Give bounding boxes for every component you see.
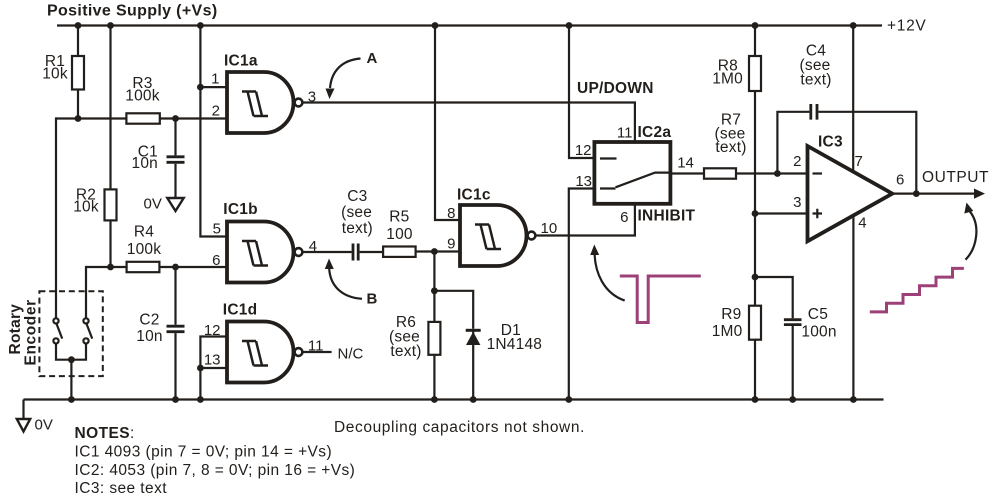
svg-text:B: B [367,291,378,308]
junction C2 top [172,264,179,271]
op-amp minus symbol [813,172,823,174]
junction R6/D1 branch [431,287,438,294]
svg-text:+12V: +12V [887,18,926,35]
svg-text:2: 2 [212,103,220,120]
svg-text:text): text) [342,220,373,237]
capacitor C4 [811,104,817,120]
junction top rail R8 [752,22,759,29]
wire bottom 0V rail [24,398,884,400]
wire IC1b pin4 to C3 [303,251,352,253]
wire top supply rail [57,24,882,26]
svg-text:C3: C3 [347,188,367,205]
resistor R5 [383,247,416,257]
waveform inhibit pulse [620,276,701,323]
svg-text:6: 6 [212,252,220,269]
wire IC2a pin14 to R7 [670,172,704,174]
svg-text:A: A [367,50,378,67]
junction C1 top [172,115,179,122]
wire IC1d pin11 N/C stub [303,351,332,353]
svg-text:9: 9 [447,236,455,253]
resistor R9 [749,306,761,340]
svg-text:C5: C5 [808,306,828,323]
svg-text:IC3: see text: IC3: see text [75,480,168,497]
svg-text:2: 2 [793,153,801,170]
junction top rail IC2a pin12 [566,22,573,29]
svg-text:6: 6 [620,209,628,226]
gate IC1d [227,322,302,383]
label Rotary Encoder [7,299,40,365]
arrow to INHIBIT waveform [590,245,625,301]
svg-text:13: 13 [204,351,221,368]
arrow to signal B [325,259,362,299]
svg-text:R5: R5 [389,209,409,226]
svg-text:100k: 100k [127,241,161,258]
svg-text:IC1c: IC1c [457,186,491,203]
wire IC1c pin8 supply vertical [435,26,460,221]
svg-text:text): text) [715,139,746,156]
svg-text:IC2a: IC2a [638,124,672,141]
wire IC2a pin13 to 0V [569,189,595,400]
analogue switch IC2a box [594,142,670,204]
output arrowhead [974,189,985,199]
svg-text:100k: 100k [125,88,159,105]
resistor R4 [127,262,160,272]
svg-text:6: 6 [896,171,904,188]
svg-text:0V: 0V [144,196,162,213]
IC2a internal contacts and wiper [600,159,670,189]
wire IC3 pin7 from +12V [852,26,854,172]
junction top rail R1 [75,22,82,29]
gate IC1c [460,205,535,266]
svg-text:text): text) [800,71,831,88]
svg-text:12: 12 [575,142,592,159]
resistor R2 [105,26,117,268]
junction bottom rail IC1d pins [197,396,204,403]
svg-text:R4: R4 [134,224,154,241]
arrow to signal A [326,59,361,100]
junction bottom rail IC3 pin4 [850,396,857,403]
junction bottom rail D1 [470,396,477,403]
svg-text:0V: 0V [35,417,53,434]
junction bottom rail encoder [68,396,75,403]
wire R7 to IC3 pin2 [736,172,808,174]
svg-text:IC3: IC3 [818,133,843,150]
svg-text:NOTES:: NOTES: [75,425,135,442]
wire IC2a pin12 from +Vs [569,26,594,159]
junction top rail IC1c pin8 [432,22,439,29]
junction top rail R2 [107,22,114,29]
svg-text:Positive Supply (+Vs): Positive Supply (+Vs) [47,2,218,19]
capacitor C5 [784,320,802,325]
wire node-B horizontal (R2/R4/C2/pin6) [86,266,227,268]
resistor R6 [428,322,440,355]
svg-text:IC1a: IC1a [224,53,258,70]
svg-text:1M0: 1M0 [712,71,743,88]
svg-text:N/C: N/C [338,346,364,363]
junction feedback at pin2 [774,170,781,177]
svg-text:IC1d: IC1d [223,302,258,319]
wire IC3 pin4 to 0V [852,215,854,400]
svg-text:IC2: 4053 (pin 7, 8 = 0V; pin: IC2: 4053 (pin 7, 8 = 0V; pin 16 = +Vs) [75,462,356,479]
resistor R7 [704,168,736,178]
junction bottom rail IC2a pin13 [565,396,572,403]
svg-text:5: 5 [213,221,221,238]
svg-text:UP/DOWN: UP/DOWN [577,80,654,97]
resistor R1 [72,26,84,119]
svg-text:1: 1 [211,70,219,87]
junction output/feedback [913,190,920,197]
svg-text:IC1b: IC1b [223,201,258,218]
svg-text:(see: (see [341,204,372,221]
svg-text:4: 4 [858,215,866,232]
junction top rail IC3 pin7 [850,22,857,29]
junction R2 bottom [107,264,114,271]
junction encoder common [68,356,75,363]
svg-text:14: 14 [677,154,694,171]
svg-text:C2: C2 [139,312,159,329]
svg-text:1N4148: 1N4148 [487,336,542,353]
wire R6 node vertical [433,252,435,400]
wire node-A horizontal (R1/R3/C1/pin2) [56,117,227,119]
ground 0V symbol bottom left [17,400,30,432]
wire feedback loop [777,112,916,194]
capacitor C3 [353,244,358,261]
svg-text:8: 8 [447,205,455,222]
arrow to OUTPUT waveform [964,203,976,260]
capacitor C1 [167,119,185,198]
svg-text:13: 13 [575,173,592,190]
wire IC1a pin1 stub [200,86,227,88]
svg-text:100n: 100n [801,324,836,341]
svg-text:100: 100 [386,226,413,243]
svg-text:text): text) [390,343,421,360]
svg-text:1M0: 1M0 [712,323,743,340]
junction divider C5 [752,274,759,281]
junction IC1a pin1 [197,84,204,91]
svg-text:R9: R9 [721,306,741,323]
op-amp IC3 [808,146,893,241]
junction R1 bottom [75,115,82,122]
wire encoder left leg [55,117,57,318]
wire R5 to IC1c pin9 [416,250,460,252]
rotary encoder switches [53,318,92,359]
gate IC1a [227,72,302,133]
op-amp plus symbol [813,209,823,219]
junction bottom rail C5 [789,396,796,403]
junction bottom rail R6 [431,396,438,403]
wire encoder right leg [85,266,87,319]
svg-text:11: 11 [617,124,633,141]
wire D1 branch [434,291,473,400]
svg-text:10n: 10n [136,328,162,345]
ground 0V symbol below C1 [167,198,183,211]
diode D1 [466,330,481,345]
svg-text:Decoupling capacitors not show: Decoupling capacitors not shown. [334,419,585,436]
svg-text:10k: 10k [73,199,99,216]
wire IC1c pin10 to IC2a pin6 [536,204,635,236]
wire IC3 output [892,193,976,195]
resistor R3 [126,113,159,123]
svg-text:7: 7 [855,153,863,170]
junction IC1c pin9 node [431,248,438,255]
wire encoder common to 0V rail [70,360,72,400]
svg-text:10k: 10k [42,66,68,83]
wire pin3 branch [755,212,808,214]
svg-text:IC1 4093 (pin 7 = 0V; pin 14 =: IC1 4093 (pin 7 = 0V; pin 14 = +Vs) [75,443,333,460]
wire C5 branch [755,277,793,400]
svg-text:Encoder: Encoder [23,299,40,365]
wire IC1 supply vertical (pins 1/5) [200,26,227,237]
junction top rail IC1 pins [197,22,204,29]
rotary encoder dashed box [39,291,102,376]
wire C3 to R5 [360,251,384,253]
svg-text:OUTPUT: OUTPUT [922,169,989,186]
svg-text:3: 3 [793,194,801,211]
junction IC1d pin13 [197,365,204,372]
wire R9 to 0V [754,340,756,400]
svg-text:10n: 10n [132,155,158,172]
svg-text:Rotary: Rotary [7,304,24,355]
waveform output staircase [870,268,964,312]
junction bottom rail C2 [172,396,179,403]
resistor R8 [749,26,761,306]
wire IC1d pins 12/13 tie [200,337,227,400]
junction divider pin3 [752,210,759,217]
junction bottom rail R9 [752,396,759,403]
svg-text:INHIBIT: INHIBIT [638,207,696,224]
capacitor C2 [167,267,185,400]
gate IC1b [227,222,302,283]
wire signal A (IC1a pin3 to IC2a pin11) [303,103,635,143]
